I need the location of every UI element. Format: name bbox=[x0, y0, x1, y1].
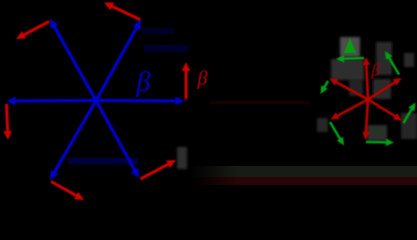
svg-text:β: β bbox=[371, 61, 381, 80]
blue root vector lower-left (left A2 star) bbox=[50, 101, 96, 181]
green label near top green arrow of right star bbox=[344, 38, 356, 53]
red root vector upper-left (right star) bbox=[330, 79, 369, 100]
green rotation arrow at upper-right red tip bbox=[385, 51, 399, 75]
blue root vector upper-right (left A2 star) bbox=[96, 20, 141, 101]
blue root vector right (left A2 star) bbox=[96, 97, 185, 106]
red root vector top (right star) bbox=[363, 57, 371, 100]
red rotation arrow at left blue tip bbox=[3, 104, 12, 140]
green rotation arrow at bottom red tip bbox=[366, 139, 394, 147]
red rotation arrow at lower-left blue tip bbox=[51, 182, 84, 201]
red rotation arrow at lower-right blue tip bbox=[141, 160, 177, 179]
red rotation arrow at right blue tip bbox=[182, 62, 190, 99]
faint gray patches behind right star bbox=[177, 37, 417, 169]
green rotation arrow at top red tip bbox=[336, 55, 364, 63]
green rotation arrow at upper-left red tip bbox=[321, 81, 329, 94]
blue root vector upper-left (left A2 star) bbox=[50, 19, 96, 101]
red root vector upper-right (right star) bbox=[368, 78, 402, 100]
svg-text:β: β bbox=[136, 67, 151, 98]
faint ghost bands bbox=[68, 158, 138, 165]
red root vector bottom (right star) bbox=[362, 100, 369, 141]
svg-text:β: β bbox=[197, 68, 208, 90]
red rotation arrow at upper-left blue tip bbox=[16, 22, 49, 40]
blue root vector left (left A2 star) bbox=[7, 97, 97, 106]
blue root vector lower-right (left A2 star) bbox=[96, 101, 139, 179]
red rotation arrow at upper-right blue tip bbox=[104, 3, 140, 20]
green rotation arrow at lower-right red tip bbox=[404, 103, 416, 124]
faint green mark near bottom tip of right star bbox=[374, 127, 383, 135]
red root vector lower-left (right star) bbox=[331, 100, 369, 120]
red root vector lower-right (right star) bbox=[368, 100, 402, 121]
green rotation arrow at lower-left red tip bbox=[330, 122, 344, 146]
